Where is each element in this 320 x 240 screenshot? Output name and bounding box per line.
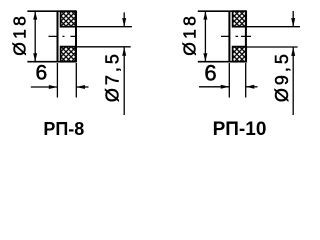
dimension line 6 left (199, 86, 229, 88)
wire 6-dim right extension (75, 63, 77, 98)
dimension line 6 right (76, 86, 88, 88)
washer outline left edge (57, 11, 59, 62)
wire bottom extension line + washer bottom edge (198, 61, 246, 63)
wire top extension line + washer top edge (27, 10, 76, 12)
svg-text:РП-10: РП-10 (213, 119, 267, 140)
svg-text:Ø7,5: Ø7,5 (103, 51, 123, 102)
washer outline right edge (75, 11, 77, 62)
wire 6-dim left extension (56, 63, 58, 98)
arrow right 6 (221, 85, 230, 89)
dimension line D9,5 upper (292, 11, 294, 27)
wire top extension line + washer top edge (198, 10, 246, 12)
arrow up D9,5 (291, 47, 295, 56)
svg-text:Ø18: Ø18 (10, 13, 30, 56)
arrow up D18 (33, 11, 37, 19)
wire bottom extension line + washer bottom edge (27, 61, 76, 63)
svg-text:6: 6 (204, 60, 216, 85)
arrow left 6 (246, 85, 255, 89)
centerline (49, 35, 76, 37)
dimension line D7,5 lower (123, 47, 125, 115)
arrow down D7,5 (122, 18, 126, 27)
washer outline left edge (228, 11, 230, 62)
wire hole top extension line (232, 26, 300, 28)
dimension line D9,5 lower (292, 47, 294, 115)
arrow left 6 (76, 85, 85, 89)
arrow up D18 (203, 11, 207, 19)
wire 6-dim right extension (245, 63, 247, 98)
arrow right 6 (49, 85, 58, 89)
svg-text:РП-8: РП-8 (43, 119, 84, 139)
hatched section top (61, 11, 76, 27)
washer outline right edge (245, 11, 247, 62)
wire hole bottom extension line (232, 46, 298, 48)
svg-text:Ø9,5: Ø9,5 (272, 51, 292, 102)
hatched section bottom (233, 47, 247, 62)
svg-text:6: 6 (36, 62, 48, 85)
svg-text:Ø18: Ø18 (180, 13, 200, 56)
arrow down D18 (33, 53, 37, 61)
wire 6-dim left extension (228, 63, 230, 98)
hatched section bottom (61, 47, 76, 62)
dimension line D18 (34, 11, 36, 62)
wire hole top extension line (60, 26, 132, 28)
dimension line 6 left (31, 86, 58, 88)
hatched section top (233, 11, 247, 27)
wire hole bottom extension line (60, 46, 131, 48)
dimension line D7,5 upper (123, 12, 125, 26)
arrow up D7,5 (122, 47, 126, 56)
centerline (221, 35, 251, 37)
arrow down D18 (203, 53, 207, 61)
arrow down D9,5 (291, 18, 295, 27)
dimension line 6 right (246, 86, 258, 88)
dimension line D18 (204, 11, 206, 62)
